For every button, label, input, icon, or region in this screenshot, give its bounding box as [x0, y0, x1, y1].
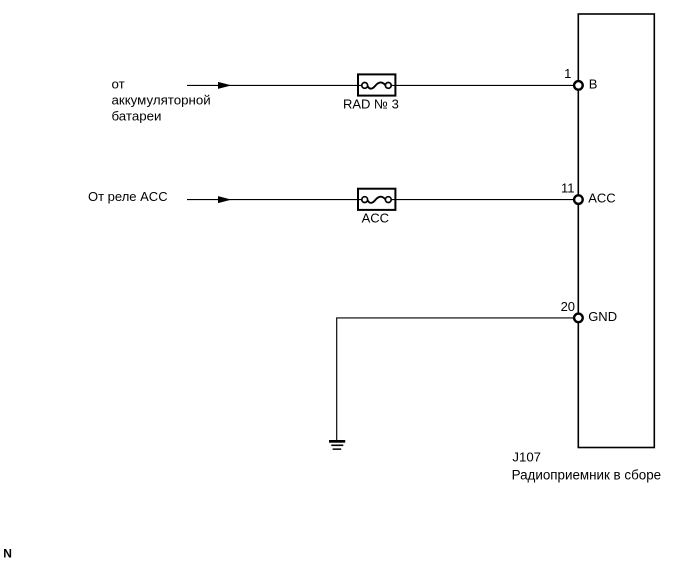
svg-text:RAD № 3: RAD № 3 [343, 96, 399, 111]
arrowhead ACC feed [218, 196, 232, 203]
svg-text:GND: GND [588, 309, 617, 324]
svg-text:Радиоприемник в сборе: Радиоприемник в сборе [512, 468, 662, 483]
pin 20 circle [574, 314, 583, 323]
wire battery feed to pin B [187, 84, 573, 86]
svg-text:ACC: ACC [588, 191, 615, 206]
svg-text:ACC: ACC [362, 211, 389, 226]
svg-text:N: N [3, 547, 12, 561]
connector J107 body [578, 14, 654, 448]
fuse ACC [358, 189, 395, 210]
wire ground run to pin GND [337, 318, 574, 440]
arrowhead battery feed [218, 82, 232, 89]
fuse RAD No 3 [358, 74, 395, 95]
svg-text:От реле ACC: От реле ACC [88, 189, 168, 204]
pin 11 circle [574, 195, 583, 204]
svg-text:от: от [112, 77, 125, 92]
svg-text:11: 11 [561, 181, 575, 196]
pin 1 circle [574, 81, 583, 90]
wire ACC relay feed to pin ACC [187, 199, 573, 201]
svg-text:батареи: батареи [112, 108, 162, 123]
svg-text:1: 1 [564, 66, 571, 81]
label from battery [112, 77, 211, 124]
svg-text:20: 20 [561, 299, 575, 314]
svg-text:аккумуляторной: аккумуляторной [112, 93, 211, 108]
svg-text:J107: J107 [512, 450, 541, 465]
svg-text:B: B [589, 77, 598, 92]
ground symbol [329, 440, 345, 450]
